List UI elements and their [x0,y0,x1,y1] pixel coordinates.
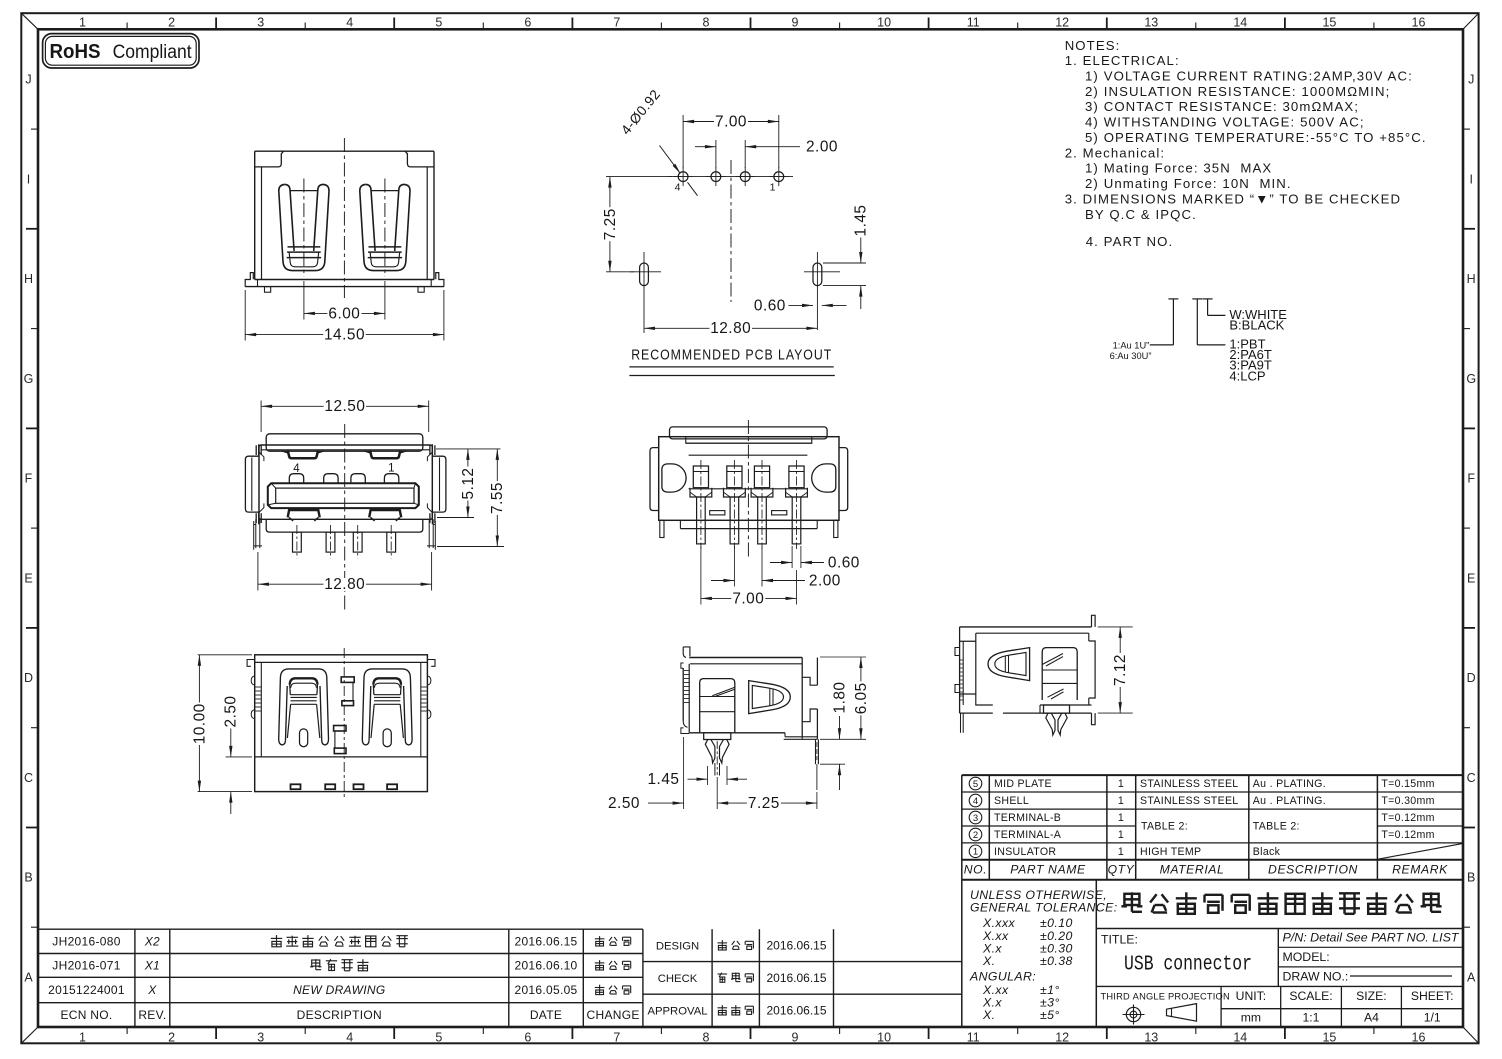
svg-text:4) WITHSTANDING VOLTAGE: 500V: 4) WITHSTANDING VOLTAGE: 500V AC; [1085,115,1365,130]
svg-text:1: 1 [1118,829,1124,841]
svg-text:J: J [25,73,31,87]
svg-text:A4: A4 [1364,1010,1379,1024]
svg-text:±0.38: ±0.38 [1040,954,1073,968]
side view terminal block [700,679,735,733]
svg-text:CHANGE: CHANGE [587,1008,640,1022]
side view right pin [816,739,819,790]
svg-text:B: B [1467,871,1475,885]
svg-text:14.50: 14.50 [324,327,365,344]
svg-text:Black: Black [1253,846,1281,858]
svg-text:SHELL: SHELL [994,795,1029,807]
company name box [1096,892,1463,928]
svg-text:7.55: 7.55 [489,482,506,514]
svg-text:10: 10 [877,16,891,30]
parts list cell text [994,778,1435,858]
svg-text:RECOMMENDED PCB LAYOUT: RECOMMENDED PCB LAYOUT [631,347,832,364]
parts list header row [964,863,1448,877]
dimension 2.00 bottom view [711,546,841,589]
top view bottom pin holes [291,784,398,789]
svg-text:3: 3 [257,16,264,30]
svg-text:15: 15 [1322,16,1336,30]
svg-text:6.05: 6.05 [853,682,870,714]
RoHS Compliant badge [43,34,199,68]
svg-text:Au . PLATING.: Au . PLATING. [1253,795,1326,807]
front view pin number 1 [388,463,394,475]
svg-text:2) Unmating Force: 10N MIN.: 2) Unmating Force: 10N MIN. [1085,176,1292,191]
svg-text:2.00: 2.00 [809,572,841,589]
svg-text:1: 1 [1118,812,1124,824]
svg-text:11: 11 [967,16,980,30]
svg-text:REMARK: REMARK [1392,863,1448,877]
svg-text:2.50: 2.50 [223,696,240,728]
dimension 2.00 pcb [695,139,838,168]
svg-text:1:Au 1U”: 1:Au 1U” [1113,340,1150,350]
svg-text:7: 7 [613,16,620,30]
bottom view terminals [690,460,807,549]
svg-text:12: 12 [1055,16,1069,30]
design check approval table [643,929,962,1026]
svg-text:3) CONTACT RESISTANCE: 30mΩMAX: 3) CONTACT RESISTANCE: 30mΩMAX; [1085,99,1359,114]
svg-text:14: 14 [1233,16,1247,30]
svg-text:B:BLACK: B:BLACK [1229,318,1284,333]
svg-text:12: 12 [1055,1031,1069,1045]
svg-text:15: 15 [1322,1031,1336,1045]
svg-text:T=0.12mm: T=0.12mm [1381,829,1434,841]
svg-text:NO.: NO. [964,863,987,877]
svg-text:MATERIAL: MATERIAL [1160,863,1225,877]
svg-text:MODEL:: MODEL: [1283,950,1330,964]
svg-text:2: 2 [973,830,978,841]
dimension 6.05 side view [820,657,870,739]
svg-text:T=0.30mm: T=0.30mm [1381,795,1434,807]
svg-text:11: 11 [967,1031,980,1045]
front view corner pegs [254,519,436,550]
svg-text:H: H [1467,272,1476,286]
top view wall serrations [251,676,431,719]
svg-text:7.12: 7.12 [1112,654,1129,686]
front view contacts [289,474,399,484]
svg-text:7.25: 7.25 [602,208,619,240]
svg-text:3. DIMENSIONS MARKED “▼” TO BE: 3. DIMENSIONS MARKED “▼” TO BE CHECKED [1065,191,1401,206]
svg-text:2: 2 [168,16,175,30]
svg-text:2016.06.15: 2016.06.15 [514,935,577,949]
svg-text:SIZE:: SIZE: [1356,989,1386,1003]
front view shell [259,445,432,519]
svg-text:ECN NO.: ECN NO. [60,1008,112,1022]
svg-text:JH2016-080: JH2016-080 [52,935,120,949]
bottom view small slots [710,511,787,515]
bottom view centerline [747,420,749,558]
svg-text:G: G [24,372,34,386]
svg-text:2: 2 [168,1031,175,1045]
svg-text:3: 3 [973,813,978,824]
svg-text:3: 3 [257,1031,264,1045]
svg-text:6: 6 [524,1031,531,1045]
svg-text:D: D [1467,671,1476,685]
svg-text:C: C [24,771,33,785]
right side view crown peg [1044,705,1070,735]
svg-text:SHEET:: SHEET: [1411,989,1454,1003]
svg-text:JH2016-071: JH2016-071 [52,959,120,973]
svg-text:7: 7 [613,1031,620,1045]
svg-text:APPROVAL: APPROVAL [647,1005,707,1017]
svg-text:X2: X2 [144,935,160,949]
front view pin number 4 [293,463,300,475]
svg-text:USB connector: USB connector [1124,954,1252,977]
svg-text:X.xxx: X.xxx [982,916,1016,930]
svg-text:13: 13 [1144,1031,1158,1045]
svg-text:SCALE:: SCALE: [1289,989,1332,1003]
svg-text:5) OPERATING TEMPERATURE:-55°C: 5) OPERATING TEMPERATURE:-55°C TO +85°C. [1085,130,1427,145]
svg-text:1) Mating Force: 35N MAX: 1) Mating Force: 35N MAX [1085,161,1272,176]
svg-text:2016.06.15: 2016.06.15 [766,1003,826,1017]
dimension 7.00 bottom view [701,546,797,607]
front view top latch windows [282,450,406,458]
dimension 7.55 front view [437,449,506,547]
svg-text:9: 9 [792,1031,799,1045]
top view right contact [362,669,412,747]
notes text block [1065,38,1427,249]
bottom view lower edge [660,520,838,537]
svg-text:5: 5 [973,779,978,790]
svg-text:2016.06.15: 2016.06.15 [766,938,826,952]
svg-text:DESCRIPTION: DESCRIPTION [297,1008,382,1022]
svg-text:4: 4 [675,182,681,194]
svg-text:1. ELECTRICAL:: 1. ELECTRICAL: [1065,53,1180,68]
svg-text:PART NAME: PART NAME [1010,863,1086,877]
svg-text:1: 1 [1118,778,1124,790]
svg-text:REV.: REV. [138,1008,166,1022]
svg-text:I: I [27,172,30,186]
svg-text:DESIGN: DESIGN [656,940,699,952]
dimension 7.00 pcb [683,113,779,168]
dimension 14.50 back view [245,290,444,344]
svg-text:T=0.12mm: T=0.12mm [1381,812,1434,824]
svg-text:DESCRIPTION: DESCRIPTION [1268,863,1358,877]
svg-text:5: 5 [435,16,442,30]
svg-text:F: F [25,472,33,486]
svg-text:7.00: 7.00 [715,113,747,130]
right side view terminal [1042,648,1077,700]
svg-text:mm: mm [1241,1010,1261,1024]
svg-text:4: 4 [346,16,353,30]
pcb layout centerline [730,160,732,302]
svg-text:1) VOLTAGE CURRENT RATING:2AMP: 1) VOLTAGE CURRENT RATING:2AMP,30V AC: [1085,69,1413,84]
svg-text:±0.10: ±0.10 [1040,916,1073,930]
svg-text:2. Mechanical:: 2. Mechanical: [1065,145,1165,160]
svg-text:X.: X. [982,954,995,968]
svg-text:GENERAL TOLERANCE:: GENERAL TOLERANCE: [970,901,1118,915]
svg-text:6:Au 30U”: 6:Au 30U” [1110,351,1152,361]
svg-text:A: A [24,970,33,984]
svg-text:2016.05.05: 2016.05.05 [514,983,577,997]
svg-text:TERMINAL-B: TERMINAL-B [994,812,1061,824]
parts list diagonal in remark cell [1377,843,1463,859]
svg-text:1: 1 [973,847,978,858]
svg-text:5.12: 5.12 [460,468,477,500]
svg-text:2) INSULATION RESISTANCE: 1000: 2) INSULATION RESISTANCE: 1000MΩMIN; [1085,84,1390,99]
svg-text:4. PART NO.: 4. PART NO. [1086,234,1174,249]
parts list table grid [962,775,1463,880]
svg-text:16: 16 [1412,16,1426,30]
svg-text:THIRD ANGLE PROJECTION: THIRD ANGLE PROJECTION [1101,991,1230,1001]
svg-text:6: 6 [524,16,531,30]
svg-text:14: 14 [1233,1031,1247,1045]
dimension 1.45 pcb [823,204,870,310]
svg-text:1/1: 1/1 [1424,1010,1441,1024]
svg-text:20151224001: 20151224001 [48,983,125,997]
svg-text:1: 1 [1118,795,1124,807]
svg-text:4:LCP: 4:LCP [1229,368,1265,383]
svg-text:TITLE:: TITLE: [1101,933,1138,947]
svg-text:Compliant: Compliant [113,42,193,63]
side view right wall [784,658,818,740]
dimension 2.50 top view [223,695,252,815]
dimension 2.50 and 7.25 side view [608,737,817,812]
svg-text:1:1: 1:1 [1303,1010,1320,1024]
svg-text:I: I [1469,172,1472,186]
svg-text:Au . PLATING.: Au . PLATING. [1253,778,1326,790]
svg-text:STAINLESS STEEL: STAINLESS STEEL [1140,795,1239,807]
dimension 12.50 front view [261,398,429,432]
svg-text:D: D [24,671,33,685]
svg-text:0.60: 0.60 [754,297,786,314]
dimension 12.80 pcb [644,296,817,337]
svg-text:TABLE 2:: TABLE 2: [1141,821,1188,833]
svg-text:NEW DRAWING: NEW DRAWING [293,983,385,997]
svg-text:1: 1 [388,463,394,475]
svg-text:X1: X1 [144,959,160,973]
svg-text:F: F [1467,472,1475,486]
top view left contact [279,669,329,747]
svg-text:UNIT:: UNIT: [1236,989,1266,1003]
svg-text:6.00: 6.00 [328,305,360,322]
svg-text:±5°: ±5° [1040,1008,1060,1022]
svg-text:X.: X. [982,1008,995,1022]
svg-text:1: 1 [79,16,86,30]
back view shell outline [255,151,434,279]
right side view right wall [1003,615,1095,724]
dimension 6.00 back view [304,281,385,322]
svg-text:CHECK: CHECK [658,973,698,985]
top view box [247,655,435,792]
back view left slot [279,179,329,277]
svg-text:2.50: 2.50 [608,795,640,812]
front view lower cap [266,519,423,532]
svg-text:NOTES:: NOTES: [1065,38,1121,53]
svg-text:MID PLATE: MID PLATE [994,778,1052,790]
svg-text:4: 4 [346,1031,353,1045]
svg-text:B: B [24,871,32,885]
svg-text:RoHS: RoHS [50,41,101,63]
ruler column numbers bottom [79,1027,1425,1045]
side view body [681,647,802,734]
back view bottom flange [245,273,444,293]
back view right slot [360,179,410,277]
svg-text:HIGH TEMP: HIGH TEMP [1140,846,1201,858]
pcb layout ovals [630,252,840,330]
svg-text:QTY: QTY [1108,863,1135,877]
svg-text:1: 1 [770,182,776,194]
title box [1096,929,1463,987]
svg-text:12.80: 12.80 [324,576,365,593]
front view side wings [245,444,446,524]
ruler column numbers top [79,16,1425,30]
pcb layout holes [668,167,793,193]
svg-text:TABLE 2:: TABLE 2: [1253,821,1300,833]
recommended pcb layout caption [629,347,834,376]
svg-text:TERMINAL-A: TERMINAL-A [994,829,1062,841]
side view crown peg [704,733,731,776]
svg-text:E: E [1467,571,1475,585]
svg-text:8: 8 [703,1031,710,1045]
svg-text:1.45: 1.45 [853,205,870,237]
front view tongue [268,483,419,508]
svg-text:1: 1 [79,1031,86,1045]
back view centerline [343,138,345,298]
bottom view top cap [670,427,828,439]
svg-text:G: G [1466,372,1476,386]
pcb layout callout 4-O0.92 [618,87,697,196]
svg-text:1.80: 1.80 [831,682,848,714]
dimension 10.00 top view [191,655,252,792]
part number legend diagram [1110,299,1288,383]
svg-text:STAINLESS STEEL: STAINLESS STEEL [1140,778,1239,790]
bottom view mid line [689,455,808,489]
svg-text:A: A [1467,970,1476,984]
parts list circled item numbers [969,777,982,858]
side view horn contact [749,681,791,714]
svg-text:C: C [1467,771,1476,785]
right side view body [955,627,1092,733]
svg-text:H: H [24,272,33,286]
projection and unit scale size sheet band [1101,986,1464,1027]
svg-text:1: 1 [1118,846,1124,858]
dimension 1.80 side view [820,681,848,791]
svg-text:9: 9 [792,16,799,30]
bottom view wings [650,448,848,511]
svg-text:2.00: 2.00 [806,139,838,156]
top view center details [334,648,355,800]
dimension 7.25 pcb [602,177,672,272]
pn model drawno rows [1278,930,1463,983]
dimension 5.12 front view [436,449,501,518]
svg-text:12.80: 12.80 [710,320,751,337]
svg-text:DATE: DATE [530,1008,562,1022]
svg-text:8: 8 [703,16,710,30]
svg-text:10.00: 10.00 [191,703,208,744]
svg-text:BY Q.C & IPQC.: BY Q.C & IPQC. [1085,207,1197,222]
bottom view D holes [662,464,836,492]
svg-text:P/N: Detail See PART NO. LIST: P/N: Detail See PART NO. LIST [1283,930,1461,944]
dimension 0.60 bottom view [770,546,860,571]
svg-text:2016.06.10: 2016.06.10 [514,959,577,973]
svg-text:7.25: 7.25 [748,795,780,812]
svg-text:J: J [1468,73,1474,87]
general tolerance box [962,880,1118,1027]
svg-text:5: 5 [435,1031,442,1045]
front view bottom windows [288,510,402,521]
svg-text:16: 16 [1412,1031,1426,1045]
dimension 7.12 right side view [1098,627,1133,713]
svg-text:1.45: 1.45 [648,771,680,788]
svg-text:E: E [24,571,32,585]
svg-text:12.50: 12.50 [324,398,365,415]
front view centerline [344,424,346,612]
dimension 1.45 side view [648,766,748,788]
revision history table [38,929,643,1026]
dimension 12.80 front view [258,552,432,593]
svg-text:DRAW NO.:: DRAW NO.: [1283,969,1349,983]
svg-text:X: X [147,983,157,997]
front view top cap [266,434,423,451]
bottom view shell box [659,437,839,521]
svg-text:ANGULAR:: ANGULAR: [969,970,1036,984]
svg-text:4: 4 [973,796,978,807]
front view pins [293,525,396,558]
svg-text:INSULATOR: INSULATOR [994,846,1056,858]
svg-text:0.60: 0.60 [828,554,860,571]
svg-text:7.00: 7.00 [732,590,764,607]
right side view horn contact [988,648,1030,681]
svg-text:T=0.15mm: T=0.15mm [1381,778,1434,790]
dimension 0.60 pcb [754,297,847,314]
svg-text:2016.06.15: 2016.06.15 [766,971,826,985]
svg-text:10: 10 [877,1031,891,1045]
svg-text:13: 13 [1144,16,1158,30]
